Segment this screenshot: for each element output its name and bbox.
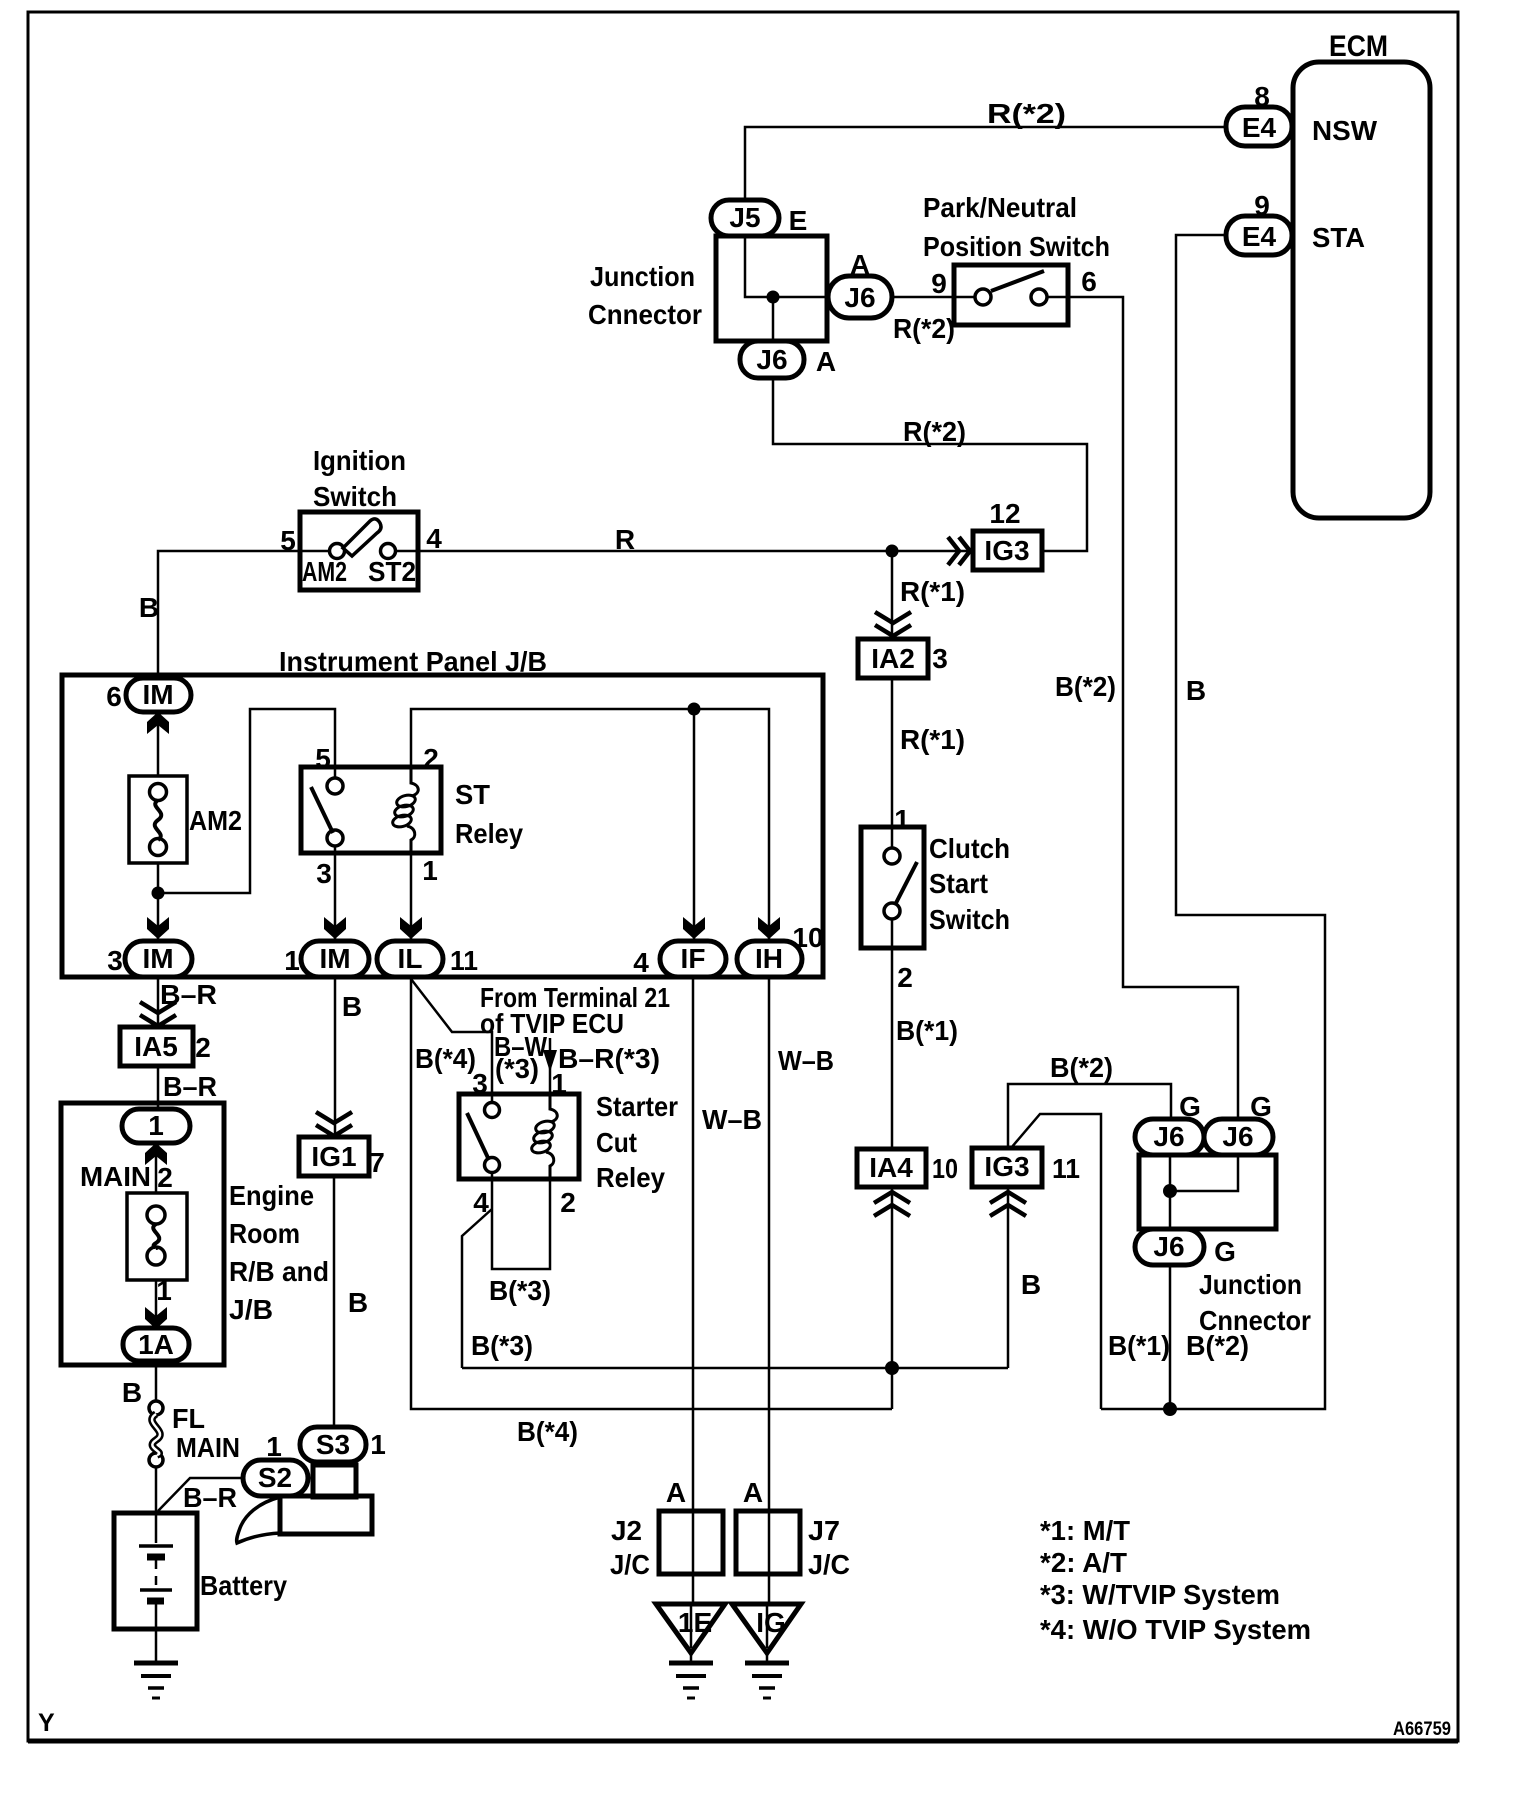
svg-text:B(*2): B(*2) [1055,671,1116,702]
svg-text:IG3: IG3 [984,1151,1029,1182]
svg-text:R(*2): R(*2) [893,313,955,344]
svg-text:A: A [666,1477,686,1508]
svg-text:STA: STA [1312,222,1365,253]
svg-text:R(*1): R(*1) [900,576,965,607]
svg-text:ST2: ST2 [368,556,416,587]
svg-text:2: 2 [897,962,913,993]
svg-text:1: 1 [551,1068,567,1099]
svg-text:Battery: Battery [200,1570,287,1601]
svg-text:J5: J5 [729,202,760,233]
svg-text:IF: IF [681,943,706,974]
svg-text:B: B [1186,675,1206,706]
svg-text:B(*1): B(*1) [896,1015,958,1046]
svg-text:2: 2 [157,1162,173,1193]
svg-text:E4: E4 [1242,112,1277,143]
svg-text:IA4: IA4 [869,1152,913,1183]
svg-text:Reley: Reley [455,818,523,849]
svg-text:12: 12 [989,498,1020,529]
svg-text:2: 2 [423,743,439,774]
svg-text:R(*2): R(*2) [987,98,1066,129]
svg-text:6: 6 [1081,266,1097,297]
svg-text:*3: W/TVIP System: *3: W/TVIP System [1040,1579,1280,1610]
svg-text:W–B: W–B [702,1104,762,1135]
svg-text:Switch: Switch [313,481,397,512]
svg-text:R/B and: R/B and [229,1256,329,1287]
svg-text:J6: J6 [844,282,875,313]
svg-text:B(*2): B(*2) [1050,1052,1113,1083]
svg-text:B(*2): B(*2) [1186,1330,1249,1361]
svg-text:Instrument Panel J/B: Instrument Panel J/B [279,646,547,677]
svg-text:J6: J6 [1153,1231,1184,1262]
svg-text:J/C: J/C [808,1549,850,1580]
svg-text:Ignition: Ignition [313,445,406,476]
svg-text:1: 1 [284,945,300,976]
svg-text:1: 1 [422,855,438,886]
svg-text:Starter: Starter [596,1091,678,1122]
svg-text:ST: ST [455,779,490,810]
svg-text:B: B [342,991,362,1022]
svg-text:J6: J6 [756,344,787,375]
svg-text:A: A [816,346,836,377]
svg-text:3: 3 [932,643,948,674]
svg-text:IG1: IG1 [311,1141,356,1172]
svg-text:1: 1 [894,804,910,835]
svg-text:3: 3 [107,945,123,976]
svg-text:MAIN: MAIN [176,1432,240,1463]
svg-text:10: 10 [932,1153,958,1184]
svg-text:J/C: J/C [610,1549,650,1580]
svg-text:Clutch: Clutch [929,833,1010,864]
svg-text:IM: IM [142,679,173,710]
svg-text:Position Switch: Position Switch [923,231,1110,262]
svg-text:Junction: Junction [1199,1269,1302,1300]
svg-text:E: E [789,205,808,236]
svg-text:R(*2): R(*2) [903,416,966,447]
svg-text:Room: Room [229,1218,300,1249]
svg-text:G: G [1214,1236,1236,1267]
svg-text:2: 2 [560,1187,576,1218]
svg-text:B(*4): B(*4) [517,1416,578,1447]
svg-text:IA5: IA5 [134,1031,178,1062]
svg-text:8: 8 [1254,81,1270,112]
svg-text:W–B: W–B [778,1045,834,1076]
svg-text:B(*1): B(*1) [1108,1330,1170,1361]
svg-text:AM2: AM2 [302,556,347,587]
svg-text:9: 9 [931,268,947,299]
svg-text:B–R(*3): B–R(*3) [558,1043,660,1074]
svg-text:*1: M/T: *1: M/T [1040,1515,1130,1546]
svg-text:B–R: B–R [160,979,217,1010]
svg-text:5: 5 [315,743,331,774]
svg-text:11: 11 [450,945,478,976]
svg-text:4: 4 [473,1187,489,1218]
svg-text:1: 1 [148,1110,164,1141]
svg-text:2: 2 [195,1032,211,1063]
svg-text:*4: W/O TVIP System: *4: W/O TVIP System [1040,1614,1311,1645]
svg-text:B(*3): B(*3) [471,1330,533,1361]
svg-text:Park/Neutral: Park/Neutral [923,192,1077,223]
svg-text:Y: Y [38,1709,55,1737]
svg-text:A66759: A66759 [1393,1719,1451,1740]
svg-text:Start: Start [929,868,988,899]
svg-text:Engine: Engine [229,1180,314,1211]
svg-text:J7: J7 [808,1515,840,1546]
svg-text:B: B [348,1287,368,1318]
svg-text:B: B [1021,1269,1041,1300]
svg-text:IM: IM [319,943,350,974]
svg-text:B: B [122,1377,142,1408]
svg-text:Reley: Reley [596,1162,665,1193]
svg-text:Cut: Cut [596,1127,637,1158]
svg-text:MAIN: MAIN [80,1161,151,1192]
svg-text:6: 6 [106,681,122,712]
svg-text:NSW: NSW [1312,115,1378,146]
svg-text:R: R [615,524,635,555]
svg-text:IG3: IG3 [984,535,1029,566]
svg-text:Junction: Junction [590,261,695,292]
svg-text:5: 5 [280,525,296,556]
svg-text:IM: IM [142,943,173,974]
svg-text:3: 3 [472,1068,488,1099]
svg-text:*2: A/T: *2: A/T [1040,1547,1127,1578]
svg-text:B: B [139,592,159,623]
svg-text:G: G [1250,1091,1272,1122]
svg-text:1A: 1A [138,1329,174,1360]
svg-text:IA2: IA2 [871,643,915,674]
svg-text:1: 1 [156,1275,172,1306]
svg-text:S3: S3 [316,1429,350,1460]
svg-text:B–R: B–R [163,1071,217,1102]
svg-text:J2: J2 [611,1515,642,1546]
svg-text:Cnnector: Cnnector [588,299,702,330]
svg-text:A: A [743,1477,763,1508]
svg-text:E4: E4 [1242,221,1277,252]
svg-text:J/B: J/B [229,1294,273,1325]
svg-text:7: 7 [369,1147,385,1178]
svg-text:S2: S2 [258,1462,292,1493]
svg-text:B(*4): B(*4) [415,1043,476,1074]
svg-text:9: 9 [1254,190,1270,221]
svg-text:J6: J6 [1222,1121,1253,1152]
svg-text:Switch: Switch [929,904,1010,935]
svg-text:ECM: ECM [1329,30,1388,63]
svg-text:A: A [850,249,870,280]
svg-text:IG: IG [756,1607,786,1638]
svg-text:B–R: B–R [183,1482,237,1513]
svg-text:G: G [1179,1091,1201,1122]
svg-text:R(*1): R(*1) [900,724,965,755]
svg-text:B(*3): B(*3) [489,1275,551,1306]
svg-text:1: 1 [370,1429,386,1460]
svg-text:3: 3 [316,858,332,889]
svg-text:(*3): (*3) [495,1053,539,1084]
svg-text:IL: IL [398,943,423,974]
svg-text:11: 11 [1052,1153,1080,1184]
svg-text:1: 1 [266,1431,282,1462]
svg-text:1E: 1E [678,1607,712,1638]
svg-text:AM2: AM2 [189,805,242,836]
svg-text:IH: IH [755,943,783,974]
svg-text:10: 10 [792,922,823,953]
svg-text:FL: FL [172,1403,205,1434]
svg-text:4: 4 [426,523,442,554]
svg-text:4: 4 [633,947,649,978]
svg-text:J6: J6 [1153,1121,1184,1152]
